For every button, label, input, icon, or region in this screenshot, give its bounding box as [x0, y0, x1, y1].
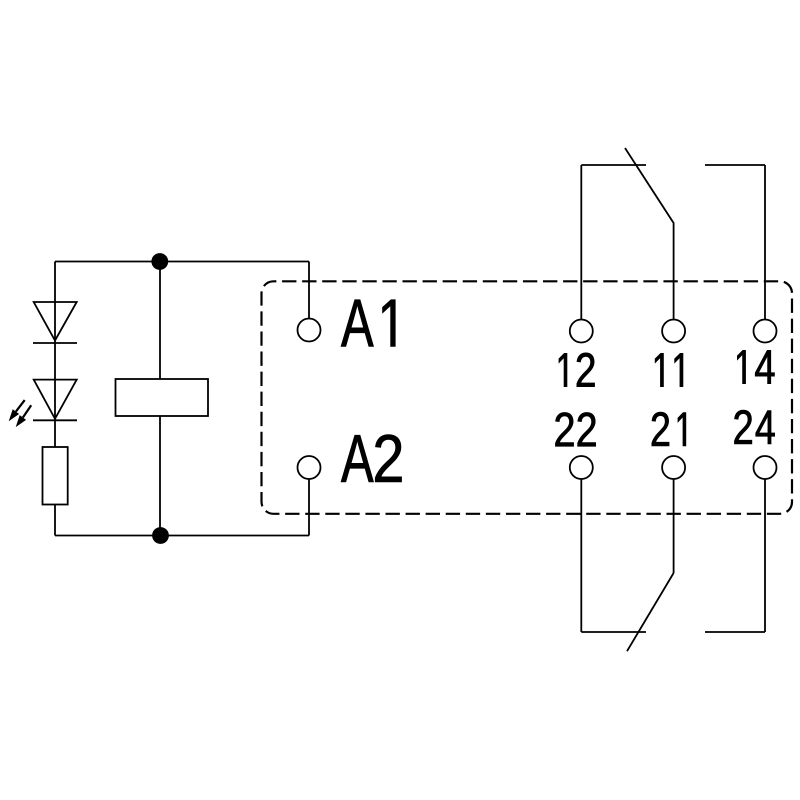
wire left branch — [54, 262, 56, 536]
label A2 — [341, 435, 402, 482]
wire NO fixed contact bottom — [705, 631, 765, 633]
resistor R1 — [43, 447, 68, 505]
terminal 11 circle — [662, 320, 685, 343]
label 24 — [734, 410, 774, 444]
LED arrow 1 — [9, 400, 25, 421]
LED D2 — [34, 380, 77, 419]
wire NC fixed contact top — [581, 164, 646, 166]
label 14 — [737, 350, 774, 383]
junction bottom — [152, 527, 169, 544]
terminal A2 — [298, 456, 321, 479]
relay coil K1 — [116, 379, 209, 416]
wire pin 22 — [580, 479, 582, 632]
terminal 21 circle — [662, 456, 685, 479]
terminal A1 — [298, 319, 321, 342]
wire pin 14 — [764, 165, 766, 320]
switch blade top — [625, 148, 674, 224]
wire coil branch lower — [159, 416, 161, 536]
terminal 12 circle — [570, 320, 593, 343]
terminal 14 circle — [754, 320, 777, 343]
label 22 — [555, 412, 595, 446]
label 11 — [655, 353, 683, 386]
diode D1 — [34, 302, 77, 341]
wire pin 12 — [580, 165, 582, 320]
wire NC fixed contact bottom — [581, 631, 646, 633]
label 21 — [652, 412, 686, 446]
junction top — [151, 253, 168, 270]
wire pin 24 — [764, 479, 766, 632]
wire coil branch upper — [159, 262, 161, 380]
wire pin 21 — [673, 479, 675, 573]
wire pin 11 — [673, 224, 675, 320]
label 12 — [559, 353, 595, 387]
wire top bus — [55, 261, 309, 263]
terminal 24 circle — [754, 456, 777, 479]
switch blade bottom — [627, 573, 674, 651]
wire A1 lead — [308, 262, 310, 319]
wire NO fixed contact top — [705, 164, 765, 166]
LED arrow 2 — [16, 405, 32, 427]
relay body dashed outline — [262, 281, 793, 514]
label A1 — [341, 300, 395, 347]
terminal 22 circle — [570, 456, 593, 479]
wire A2 lead — [308, 479, 310, 536]
wire bottom bus — [55, 535, 309, 537]
